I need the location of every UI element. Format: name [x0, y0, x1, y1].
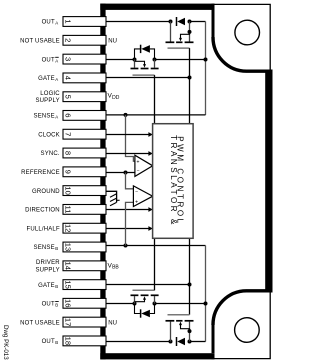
wire pin11 DIRECTION with arrow — [106, 207, 153, 212]
svg-text:B: B — [55, 246, 58, 251]
wire pin7 CLOCK with arrow — [106, 132, 153, 137]
node D4 cathode — [169, 340, 173, 344]
node D1 anode — [188, 20, 192, 24]
node sense A branch — [124, 113, 128, 117]
svg-text:OUT: OUT — [42, 57, 55, 63]
wire pin18 source side to corner — [190, 341, 206, 343]
op-amp comparator A — [135, 155, 153, 176]
mounting hole top — [235, 20, 260, 45]
svg-text:OUT: OUT — [42, 20, 55, 26]
wire pin3 row left — [106, 59, 135, 61]
package tab thin outline bottom-right — [212, 292, 271, 359]
pin 15 lead — [63, 280, 106, 290]
wire pin6 SENSEA row — [106, 114, 206, 116]
pin 2 lead — [63, 35, 106, 45]
transistor Q4 — [166, 315, 194, 342]
svg-text:+: + — [137, 160, 140, 166]
pin 9 lead — [63, 167, 106, 177]
svg-text:GATE: GATE — [38, 283, 55, 289]
svg-text:12: 12 — [64, 224, 73, 232]
svg-text:−: − — [135, 189, 138, 195]
svg-text:DD: DD — [112, 95, 120, 101]
node reference branch — [124, 171, 128, 175]
pin 4 lead — [63, 73, 106, 83]
pin 6 lead — [63, 111, 106, 121]
pin 3 lead — [63, 54, 106, 64]
pin 14 lead — [63, 261, 106, 271]
svg-text:SUPPLY: SUPPLY — [35, 267, 59, 273]
ground chassis symbol — [110, 194, 120, 206]
wire pin16 row left — [106, 303, 135, 305]
wire pin1 source side to corner — [190, 21, 206, 23]
pin 11 lead — [63, 205, 106, 215]
svg-text:18: 18 — [63, 337, 72, 345]
svg-text:7: 7 — [64, 132, 73, 136]
svg-text:−: − — [137, 169, 140, 175]
svg-text:DIRECTION: DIRECTION — [25, 208, 60, 214]
pin 8 lead — [63, 148, 106, 158]
pin 13 lead — [63, 242, 106, 252]
wire pin1 row — [106, 21, 171, 23]
pin 17 lead — [63, 317, 106, 327]
pin 12 lead — [63, 223, 106, 233]
wire pin13 SENSEB row — [106, 245, 206, 247]
svg-text:B: B — [55, 303, 58, 308]
wire gate A vertical — [189, 48, 191, 124]
svg-text:FULL/HALF: FULL/HALF — [27, 226, 60, 232]
svg-text:OUT: OUT — [42, 339, 55, 345]
svg-text:5: 5 — [64, 95, 73, 99]
svg-text:A: A — [55, 115, 58, 120]
svg-text:3: 3 — [64, 57, 73, 61]
svg-text:16: 16 — [63, 299, 72, 307]
svg-text:NU: NU — [108, 320, 117, 326]
svg-text:13: 13 — [64, 243, 73, 251]
svg-text:2: 2 — [64, 38, 73, 42]
node source B pin16 junction — [204, 302, 208, 306]
node sense B branch — [124, 244, 128, 248]
node gate A pin4 — [188, 76, 192, 80]
svg-text:A: A — [55, 21, 58, 26]
diode D2 with legs — [135, 45, 155, 60]
svg-text:REFERENCE: REFERENCE — [21, 170, 60, 176]
wire sense A to comparator — [126, 115, 135, 161]
svg-text:+: + — [135, 200, 138, 206]
wire pin8 SYNC with arrow — [106, 151, 153, 156]
svg-text:B: B — [55, 284, 58, 289]
wire pin3 row right — [155, 59, 206, 61]
svg-text:Dwg PK-013: Dwg PK-013 — [2, 325, 9, 360]
svg-text:6: 6 — [64, 113, 73, 117]
wire sense B to comp2 — [126, 202, 134, 245]
wire source vertical A — [205, 22, 207, 115]
svg-text:LOGIC: LOGIC — [40, 91, 60, 97]
wire gate B vertical — [189, 238, 191, 314]
wire pin12 FULL/HALF with arrow — [106, 226, 153, 231]
pin 10 lead — [63, 186, 106, 196]
wire pin18 row — [106, 341, 171, 343]
svg-text:9: 9 — [64, 170, 73, 174]
svg-text:NU: NU — [108, 39, 117, 45]
pin 16 lead — [63, 298, 106, 308]
svg-text:SENSE: SENSE — [34, 245, 55, 251]
mounting hole bottom — [235, 318, 260, 343]
svg-text:BB: BB — [112, 265, 119, 271]
svg-text:14: 14 — [63, 262, 72, 270]
package body thick outline — [100, 4, 272, 360]
svg-text:NOT USABLE: NOT USABLE — [20, 39, 60, 45]
svg-text:PWM CONTROL: PWM CONTROL — [176, 136, 185, 226]
wire gate A2 vertical — [154, 75, 156, 124]
svg-text:4: 4 — [64, 76, 73, 80]
transistor Q3 — [131, 290, 159, 305]
svg-text:NOT USABLE: NOT USABLE — [20, 320, 60, 326]
transistor Q1 — [166, 22, 194, 49]
pin 7 lead — [63, 129, 106, 139]
pin 1 lead — [63, 17, 106, 27]
package tab thin outline top-right — [212, 4, 271, 69]
svg-text:8: 8 — [64, 151, 73, 155]
svg-text:GROUND: GROUND — [32, 189, 60, 195]
svg-text:SUPPLY: SUPPLY — [35, 98, 59, 104]
node D1 cathode — [169, 20, 173, 24]
transistor Q2 — [131, 58, 159, 76]
wire reference to comp2 — [126, 173, 134, 189]
svg-text:DRIVER: DRIVER — [36, 260, 60, 266]
svg-text:11: 11 — [64, 205, 73, 213]
wire pin10 GROUND — [106, 191, 117, 202]
pin 18 lead — [63, 336, 106, 346]
pin 5 lead — [63, 92, 106, 102]
svg-text:SENSE: SENSE — [34, 114, 55, 120]
svg-text:1: 1 — [64, 19, 73, 23]
wire pin15 GATEB row — [106, 284, 190, 286]
svg-text:B: B — [55, 340, 58, 345]
svg-text:OUT: OUT — [42, 302, 55, 308]
wire source vertical B — [205, 246, 207, 342]
node D4 anode — [188, 340, 192, 344]
op-amp comparator B — [133, 186, 152, 207]
wire pin16 row right — [155, 303, 206, 305]
wire pin9 REFERENCE row — [106, 172, 135, 174]
diode D1 — [177, 17, 186, 26]
svg-text:A: A — [55, 58, 58, 63]
svg-text:GATE: GATE — [38, 76, 55, 82]
diode D3 with legs — [135, 304, 155, 318]
wire pin4 GATEA row — [106, 77, 190, 79]
diode D4 — [177, 337, 186, 346]
svg-text:A: A — [55, 77, 58, 82]
svg-text:SYNC.: SYNC. — [41, 151, 60, 157]
svg-text:10: 10 — [64, 186, 73, 194]
block U1 translator and pwm control — [153, 124, 194, 239]
svg-text:17: 17 — [64, 318, 73, 326]
svg-text:CLOCK: CLOCK — [38, 132, 60, 138]
wire gate B2 vertical — [154, 238, 156, 290]
node gate B pin15 — [188, 283, 192, 287]
node source A pin3 junction — [204, 58, 208, 62]
svg-text:15: 15 — [64, 280, 73, 288]
